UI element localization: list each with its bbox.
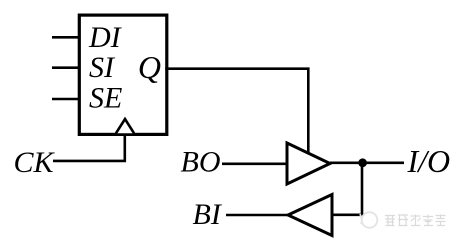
wire Q to output-enable of buffer bbox=[165, 69, 308, 154]
svg-text:SE: SE bbox=[89, 81, 122, 114]
wire DI input stub bbox=[52, 36, 80, 39]
watermark text bbox=[385, 215, 446, 227]
clock edge triangle bbox=[116, 119, 134, 133]
svg-text:Q: Q bbox=[138, 49, 161, 85]
svg-text:BI: BI bbox=[193, 198, 223, 231]
junction dot at I/O net bbox=[358, 158, 367, 167]
wire SE input stub bbox=[52, 98, 80, 101]
watermark logo circle bbox=[360, 212, 377, 228]
wire buffer output to I/O pad bbox=[330, 162, 404, 165]
svg-text:SI: SI bbox=[89, 51, 116, 84]
svg-text:CK: CK bbox=[14, 146, 56, 179]
flip-flop box U1 bbox=[79, 15, 167, 134]
wire input buffer to BI bbox=[226, 214, 289, 217]
buffer BO tri-state driver bbox=[287, 143, 330, 184]
buffer BI input receiver bbox=[288, 195, 332, 236]
svg-text:I/O: I/O bbox=[407, 143, 451, 179]
wire CK to clock pin bbox=[53, 134, 125, 161]
svg-text:DI: DI bbox=[88, 21, 123, 54]
wire I/O pad down to input buffer bbox=[333, 163, 362, 215]
wire SI input stub bbox=[52, 66, 80, 69]
svg-text:BO: BO bbox=[181, 146, 221, 179]
wire BO to buffer input bbox=[222, 163, 287, 166]
